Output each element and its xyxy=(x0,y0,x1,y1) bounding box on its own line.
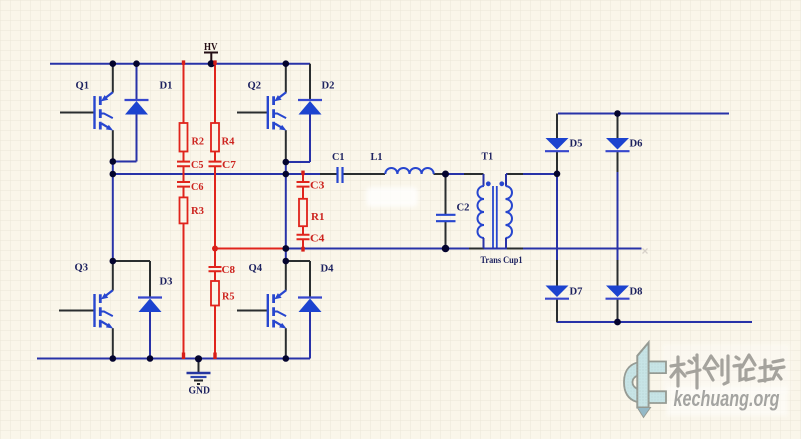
wire Q3 collector to D3 xyxy=(113,261,150,298)
pin Q2 emitter xyxy=(285,130,287,162)
watermark chinese text xyxy=(671,355,784,388)
pin Q1 collector xyxy=(112,64,114,93)
pin Q2 collector xyxy=(285,64,287,93)
pin C2 leads xyxy=(445,174,447,249)
wire rectifier top rail xyxy=(558,113,729,115)
svg-text:D1: D1 xyxy=(160,81,173,92)
svg-text:C1: C1 xyxy=(332,152,345,163)
wire red link to node B xyxy=(215,248,286,250)
resistor R4 xyxy=(211,123,219,152)
diode D8 xyxy=(606,286,630,299)
svg-text:R5: R5 xyxy=(222,292,235,303)
wire ground rail xyxy=(37,358,310,360)
wire node B vertical xyxy=(285,162,287,261)
svg-text:HV: HV xyxy=(204,42,218,53)
pin Q4 gate xyxy=(237,310,268,312)
svg-text:D2: D2 xyxy=(322,81,335,92)
wire node A to L1 out xyxy=(446,173,484,175)
wire rectifier bottom rail xyxy=(557,321,753,323)
diode D2 xyxy=(298,100,322,115)
capacitor C3 xyxy=(297,182,310,187)
svg-text:Q1: Q1 xyxy=(76,81,90,92)
transistor Q2 xyxy=(268,92,287,130)
pin T1 secondary bottom xyxy=(507,248,523,250)
capacitor C1 xyxy=(338,167,343,183)
svg-text:D3: D3 xyxy=(160,277,173,288)
pin D6 leads xyxy=(617,114,619,173)
pin L1 right lead xyxy=(434,173,446,175)
wire Q1 emitter to D1 xyxy=(113,115,137,162)
svg-text:R2: R2 xyxy=(192,137,205,148)
diode D1 xyxy=(125,100,149,115)
wire Q4 collector to D4 xyxy=(286,261,310,298)
pin T1 primary top xyxy=(464,173,484,175)
diode D6 xyxy=(606,138,630,151)
svg-text:D6: D6 xyxy=(630,139,643,150)
diode D4 xyxy=(298,298,322,313)
pin Q3 gate xyxy=(59,310,95,312)
junction red node R4 C8 xyxy=(212,246,218,252)
pin Q1 gate xyxy=(60,112,95,114)
wire secondary top to D5 D7 node xyxy=(506,173,557,175)
pin T1 secondary top xyxy=(508,173,524,175)
svg-text:C6: C6 xyxy=(191,182,204,193)
transformer T1 primary lead bottom xyxy=(483,238,485,249)
svg-text:C2: C2 xyxy=(457,203,470,214)
svg-text:C3: C3 xyxy=(310,181,325,192)
pin D8 leads xyxy=(617,260,619,322)
svg-text:R1: R1 xyxy=(311,212,325,223)
wire D3 bottom xyxy=(149,312,151,359)
capacitor C6 xyxy=(177,182,190,187)
transformer T1 primary winding xyxy=(478,186,485,238)
value labels red xyxy=(191,137,325,303)
resistor R2 xyxy=(180,123,188,152)
transformer T1 phase dot secondary xyxy=(499,181,504,186)
capacitor C2 xyxy=(436,215,456,221)
svg-text:D4: D4 xyxy=(321,264,334,275)
resistor R1 xyxy=(299,199,307,226)
capacitor C5 xyxy=(177,162,190,167)
pin C1 leads xyxy=(320,173,385,175)
svg-text:Q2: Q2 xyxy=(248,81,262,92)
svg-text:L1: L1 xyxy=(371,152,383,163)
transistor Q3 xyxy=(95,290,114,328)
white patch xyxy=(366,187,418,207)
transformer T1 secondary lead top xyxy=(505,174,507,186)
diode D5 xyxy=(545,138,569,151)
pin Q3 collector xyxy=(112,261,114,291)
pin T1 primary bottom xyxy=(469,248,484,250)
pin Q1 emitter xyxy=(112,130,114,161)
diode D7 xyxy=(545,286,569,299)
diode D3 xyxy=(138,298,162,313)
wire Q2 emitter to D2 xyxy=(286,115,310,163)
wire D1 top xyxy=(136,64,138,100)
resistor R3 xyxy=(180,197,188,223)
transformer T1 primary lead top xyxy=(483,174,485,186)
ground GND xyxy=(187,359,211,397)
pin D5 leads xyxy=(556,114,558,175)
svg-text:R3: R3 xyxy=(191,206,204,217)
capacitor C4 xyxy=(297,235,310,239)
transformer T1 secondary lead bottom xyxy=(505,238,507,249)
svg-text:GND: GND xyxy=(189,386,211,397)
pin D7 leads xyxy=(556,260,558,322)
svg-text:C8: C8 xyxy=(222,265,236,276)
wire red chain R2 C5 C6 R3 xyxy=(183,64,185,359)
pin Q3 emitter xyxy=(112,328,114,358)
pin Q2 gate xyxy=(237,112,268,114)
resistor R5 xyxy=(211,281,219,306)
svg-text:R4: R4 xyxy=(222,137,235,148)
wire node A vertical xyxy=(112,162,114,262)
wire top rail HV xyxy=(50,63,310,65)
svg-text:Q3: Q3 xyxy=(75,263,89,274)
wire red chain C3 R1 C4 xyxy=(302,171,304,251)
transistor Q1 xyxy=(95,92,114,130)
svg-text:D5: D5 xyxy=(570,139,583,150)
wire mid rail node A xyxy=(113,173,320,175)
watermark logo xyxy=(624,343,790,418)
wire bottom output rail node B xyxy=(286,248,642,250)
pin Q4 emitter xyxy=(285,328,287,358)
svg-text:D7: D7 xyxy=(570,287,583,298)
transformer T1 secondary winding xyxy=(506,186,513,238)
pin Q4 collector xyxy=(285,261,287,291)
inductor L1 xyxy=(385,168,433,174)
wire D5 D7 mid xyxy=(556,174,558,260)
svg-text:T1: T1 xyxy=(482,152,494,163)
svg-text:Trans Cup1: Trans Cup1 xyxy=(481,256,523,266)
wire red chain R4 C7 C8 R5 xyxy=(214,64,216,359)
capacitor C7 xyxy=(209,162,222,167)
svg-text:D8: D8 xyxy=(630,287,643,298)
capacitor C8 xyxy=(209,267,222,271)
power port HV xyxy=(204,42,218,64)
transformer T1 core xyxy=(493,186,497,248)
no-ERC mark xyxy=(643,249,648,254)
svg-text:C5: C5 xyxy=(191,160,204,171)
transformer T1 phase dot primary xyxy=(486,181,491,186)
transistor Q4 xyxy=(268,290,287,328)
svg-text:kechuang.org: kechuang.org xyxy=(674,386,780,411)
wire D4 bottom xyxy=(309,312,311,359)
designator labels blue xyxy=(75,81,643,298)
svg-text:Q4: Q4 xyxy=(249,263,263,274)
wire D6 D8 mid xyxy=(617,172,619,260)
pin D2 top corner xyxy=(309,64,311,100)
svg-text:C4: C4 xyxy=(310,234,325,245)
red wire rail ticks xyxy=(182,60,305,359)
svg-text:C7: C7 xyxy=(222,160,236,171)
